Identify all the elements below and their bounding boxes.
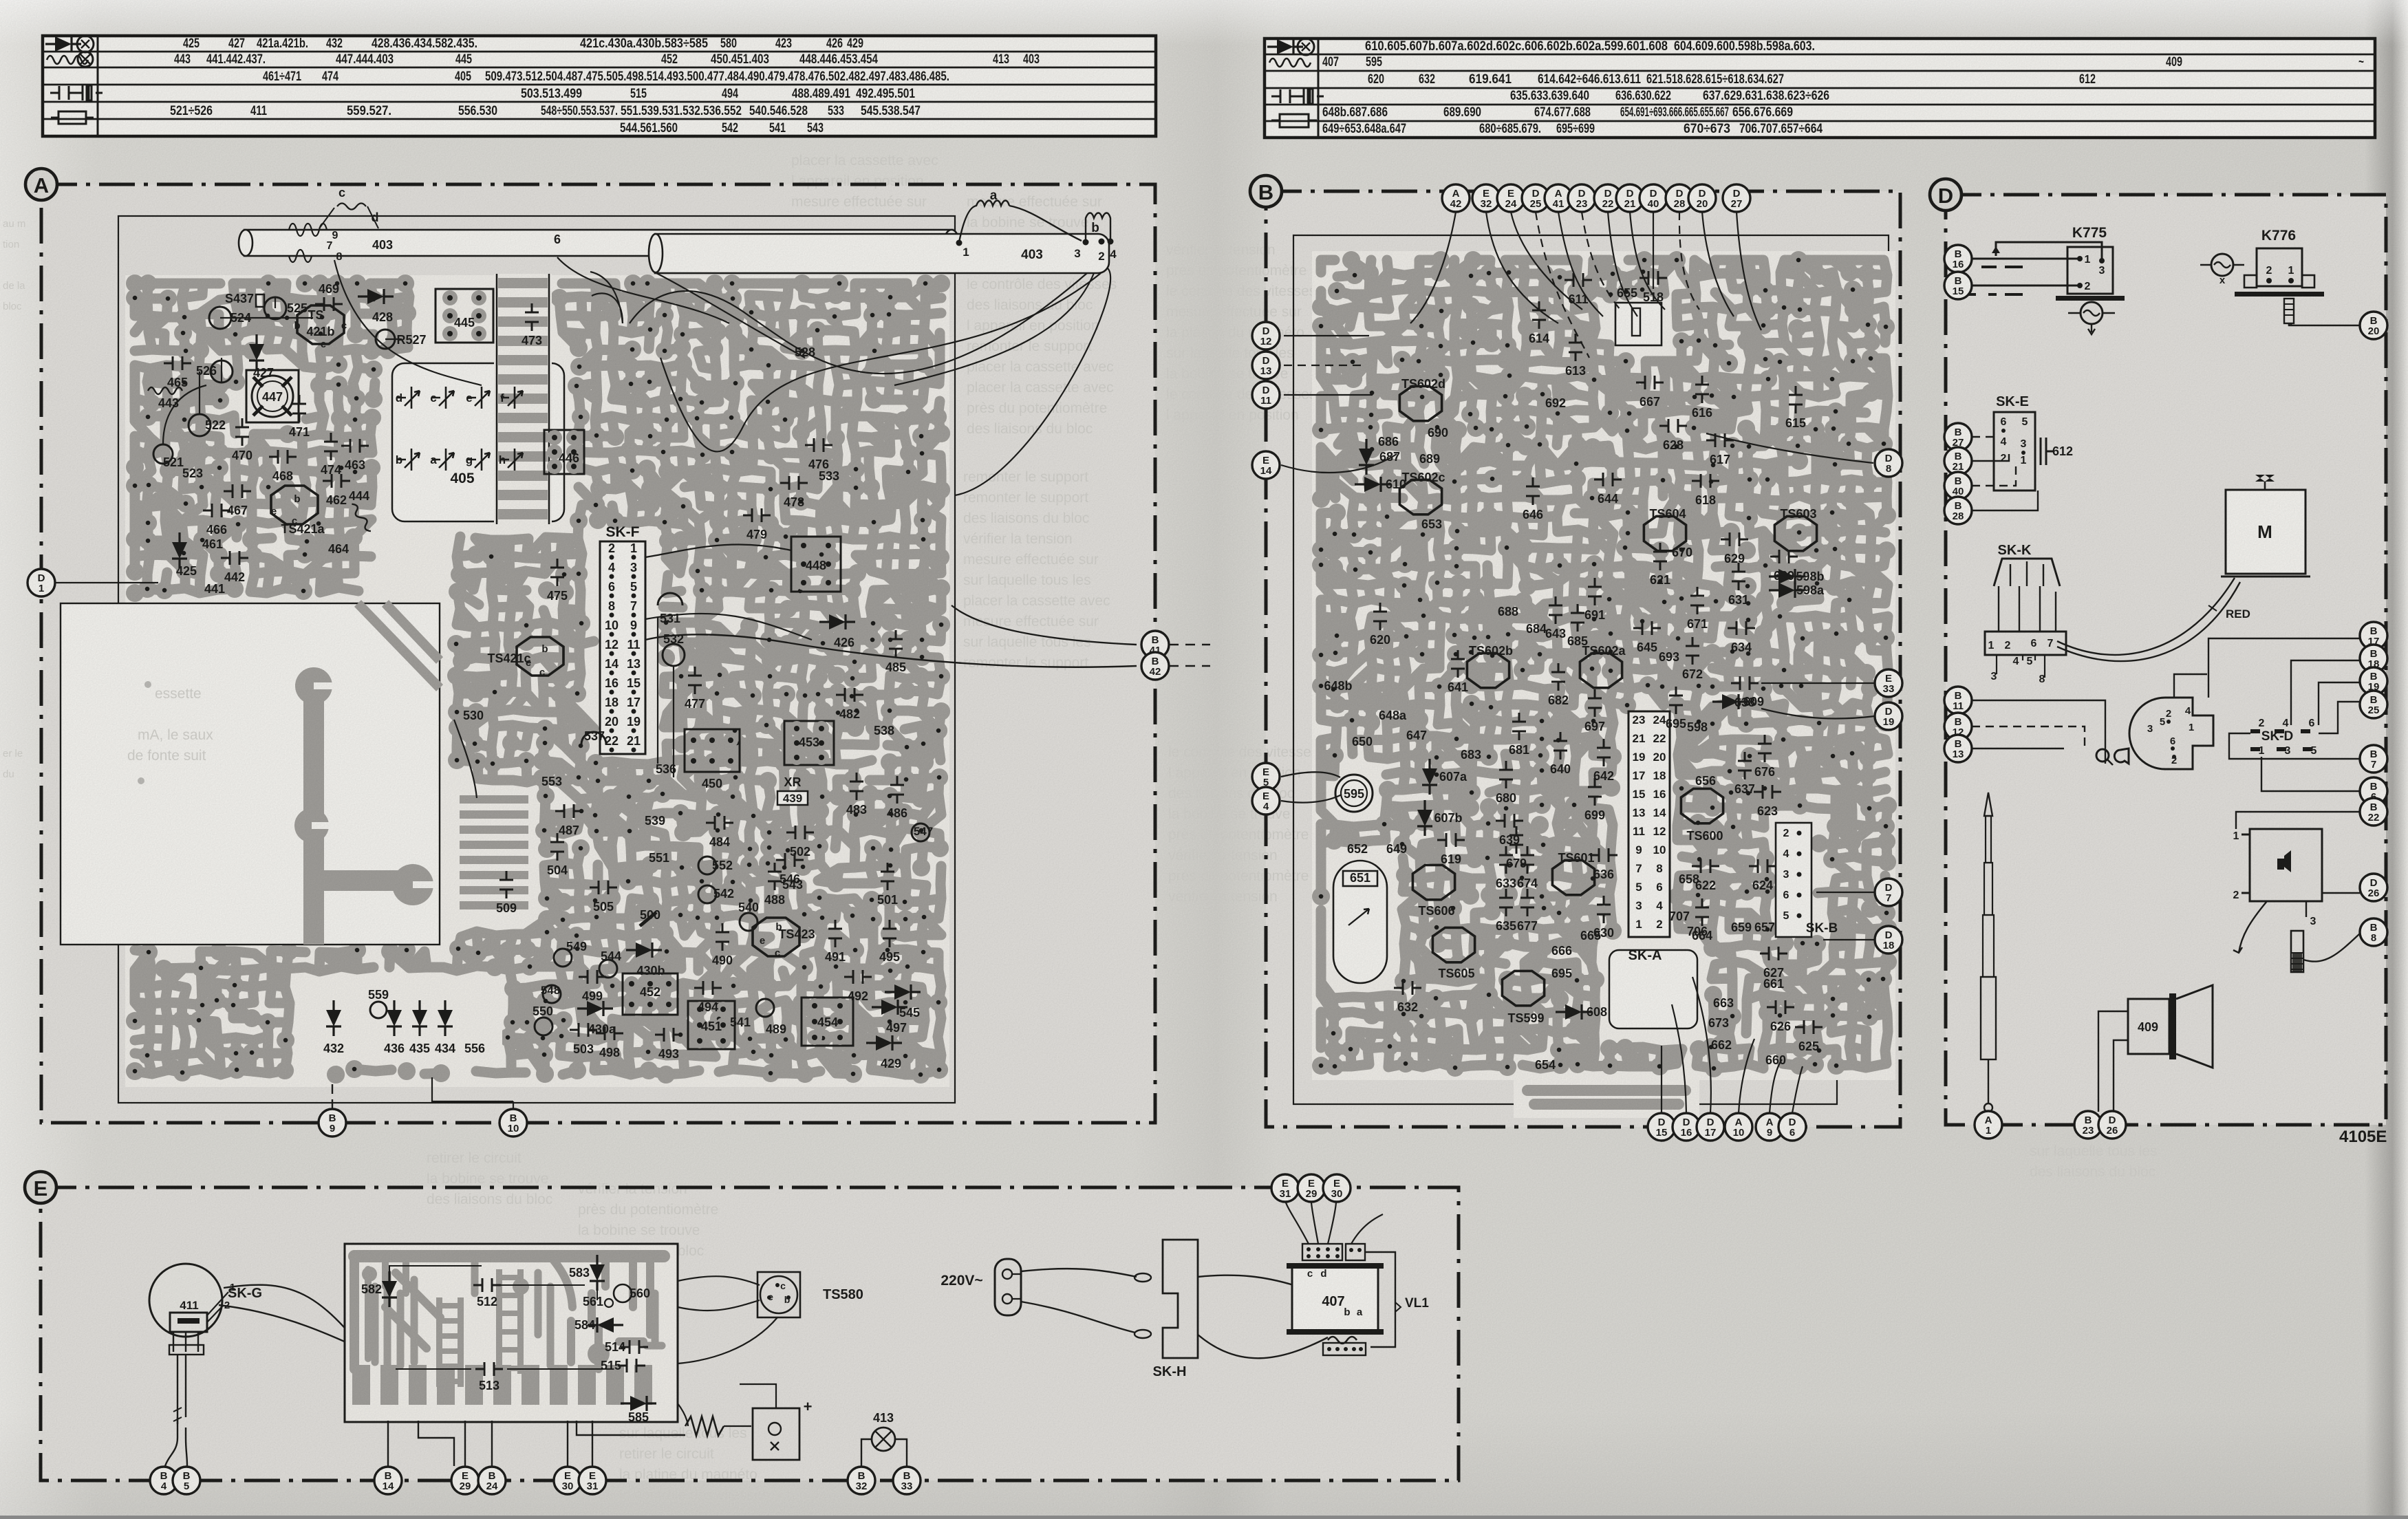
capacitor 671 bbox=[1690, 587, 1704, 614]
module 450 bbox=[685, 729, 740, 772]
connector D8 bbox=[1875, 449, 1902, 477]
capacitor 645 bbox=[1633, 621, 1661, 635]
connector B10 bbox=[432, 1077, 513, 1109]
part 469 bbox=[315, 297, 343, 311]
module 451 bbox=[688, 1001, 735, 1049]
component index table (right page) bbox=[1265, 39, 2375, 138]
part 544 bbox=[599, 960, 617, 978]
connector D17 bbox=[1697, 1113, 1724, 1141]
jumper wires top of board B bbox=[1281, 212, 1875, 1113]
lamp housing 651 bbox=[1333, 861, 1387, 983]
pilot lamp under K775 bbox=[2081, 302, 2103, 324]
wires to TS580 bbox=[678, 1276, 777, 1364]
board E to bottom connectors bbox=[388, 1421, 685, 1466]
capacitor 473 bbox=[525, 303, 539, 331]
right index numbers row 4 bbox=[1510, 89, 1829, 103]
connector A10 bbox=[1725, 1113, 1752, 1141]
capacitor 697 bbox=[1588, 689, 1602, 717]
right index numbers row 3 bbox=[1368, 72, 2096, 87]
panel D border bbox=[1946, 195, 2386, 1125]
tuner 447 bbox=[246, 370, 299, 422]
part 549 bbox=[554, 949, 572, 967]
capacitor 618 bbox=[1692, 474, 1719, 488]
transistor TS600 bbox=[1681, 788, 1723, 823]
connector D22 bbox=[1594, 184, 1622, 212]
module 448 bbox=[791, 537, 841, 592]
capacitor 483 bbox=[850, 773, 863, 800]
diode 426 bbox=[819, 614, 855, 629]
diode 425 bbox=[172, 532, 187, 568]
capacitor 614 bbox=[1532, 301, 1546, 329]
capacitor 621 bbox=[1653, 543, 1667, 570]
link wires board E bbox=[389, 1266, 612, 1369]
capacitor 691 bbox=[1588, 578, 1602, 605]
capacitor 488 bbox=[768, 863, 782, 890]
transistor TS606 bbox=[1412, 865, 1454, 899]
diode 545 bbox=[885, 984, 921, 1000]
part 550 bbox=[535, 1017, 552, 1035]
capacitor 642 bbox=[1597, 739, 1611, 766]
capacitor icons bbox=[50, 86, 78, 100]
resistor icon bbox=[1280, 114, 1309, 127]
capacitor 632 bbox=[1394, 981, 1421, 995]
capacitor 677 bbox=[1520, 889, 1534, 916]
transistor TS599 bbox=[1502, 971, 1544, 1005]
ferrite rod aerial 403 (left rod) bbox=[244, 230, 953, 256]
clear zone SK-A bbox=[1609, 950, 1697, 1028]
capacitor 466 bbox=[203, 504, 230, 517]
capacitor 471 bbox=[292, 395, 306, 422]
aerial lead wires bbox=[334, 257, 1110, 495]
capacitor 625 bbox=[1795, 1020, 1823, 1034]
capacitor 644 bbox=[1594, 473, 1622, 486]
capacitor 624 bbox=[1749, 859, 1776, 873]
module 452 bbox=[623, 973, 678, 1015]
capacitor 613 bbox=[1569, 334, 1582, 361]
capacitor 512 bbox=[473, 1278, 501, 1292]
ladder structures bbox=[436, 1297, 442, 1387]
capacitor 474 bbox=[324, 433, 338, 460]
transistor TS421c bbox=[517, 637, 563, 676]
capacitor 639 bbox=[1496, 814, 1523, 828]
trimmer set 405 bbox=[398, 387, 411, 409]
winding on left rod bbox=[289, 224, 327, 262]
transistor TS601 bbox=[1552, 860, 1594, 894]
coil icon bbox=[1269, 58, 1311, 67]
part 537 bbox=[581, 732, 606, 744]
connector E4 bbox=[1252, 787, 1280, 815]
diode 436 bbox=[387, 1000, 402, 1036]
capacitor 505 bbox=[590, 881, 617, 894]
capacitor 502 bbox=[786, 826, 814, 839]
capacitor 617 bbox=[1706, 433, 1734, 447]
capacitor 492 bbox=[844, 970, 872, 984]
connector E33 bbox=[1875, 669, 1902, 697]
index numbers row 5 bbox=[170, 104, 921, 118]
part 526 bbox=[211, 360, 233, 383]
capacitor 465 bbox=[164, 356, 191, 370]
PCB copper traces board E bbox=[354, 1256, 664, 1369]
capacitor 513 bbox=[475, 1362, 503, 1376]
connector E5 bbox=[1252, 763, 1280, 790]
part 525 bbox=[264, 297, 286, 319]
capacitor 482 bbox=[836, 688, 863, 702]
capacitor 634 bbox=[1728, 621, 1755, 635]
capacitor 487 bbox=[555, 804, 583, 818]
part 524 bbox=[209, 307, 231, 329]
connector strip (central) bbox=[1628, 711, 1670, 937]
part 548 bbox=[543, 985, 561, 1003]
capacitor 494 bbox=[694, 981, 722, 995]
diode 497 bbox=[872, 1000, 907, 1015]
diode 583 bbox=[590, 1255, 605, 1291]
capacitor 630 bbox=[1597, 896, 1611, 923]
connectors B11 B12 B13 bbox=[1972, 700, 2105, 764]
capacitor 682 bbox=[1551, 663, 1565, 691]
transistor TS423 bbox=[753, 918, 799, 956]
index numbers row 6 bbox=[620, 121, 824, 136]
panel B border bbox=[1266, 191, 1900, 1127]
connector D12 bbox=[1252, 322, 1280, 349]
part R527 bbox=[376, 330, 395, 349]
board B substrate bbox=[1312, 251, 1895, 1118]
capacitor 477 bbox=[688, 667, 702, 694]
capacitor 681 bbox=[1512, 713, 1526, 740]
connector D19 bbox=[1875, 702, 1902, 730]
connector B16/B15/B20 bbox=[1944, 245, 1972, 272]
diode 610 bbox=[1355, 477, 1390, 492]
part 542 bbox=[698, 885, 716, 903]
part 547 bbox=[912, 823, 929, 841]
phone jack socket bbox=[2250, 829, 2322, 901]
connector E32 bbox=[1472, 184, 1500, 212]
wide supply trace through note area bbox=[314, 670, 402, 945]
diode 609 bbox=[1712, 694, 1748, 709]
diode 429 bbox=[866, 1035, 902, 1051]
capacitor 674 bbox=[1520, 846, 1534, 874]
capacitor 667 bbox=[1636, 376, 1664, 389]
right index numbers row 2 bbox=[1322, 55, 2364, 69]
pickup coil c/d above rod bbox=[337, 204, 366, 210]
edge connector comb bbox=[494, 274, 552, 524]
diode row clear zone bbox=[303, 984, 502, 1059]
module 445 bbox=[436, 289, 493, 343]
capacitor 509 bbox=[499, 871, 513, 898]
capacitor 636 bbox=[1590, 848, 1617, 862]
connector D27 bbox=[1723, 184, 1750, 212]
connector D1 bbox=[28, 569, 55, 596]
capacitor 499 bbox=[579, 970, 606, 984]
resistor icon bbox=[58, 111, 86, 124]
capacitor 622 bbox=[1692, 859, 1719, 873]
index numbers row 1 bbox=[183, 36, 863, 51]
capacitor 629 bbox=[1721, 532, 1748, 546]
pilot lamp K776 bbox=[2211, 254, 2233, 276]
connector B42 bbox=[1141, 652, 1169, 680]
SK-G leads bbox=[165, 1355, 187, 1466]
capacitor 616 bbox=[1695, 376, 1709, 403]
connector B9 bbox=[332, 1079, 333, 1109]
capacitor 680 bbox=[1499, 761, 1513, 788]
transistor TS580 bbox=[757, 1272, 800, 1317]
connector D6 bbox=[1778, 1113, 1806, 1141]
SK-D wiring bbox=[2174, 638, 2360, 791]
capacitor 467 bbox=[224, 484, 251, 498]
pot 560 bbox=[614, 1284, 632, 1302]
capacitor 515 bbox=[618, 1359, 645, 1372]
faint show-through text from reverse page bbox=[120, 53, 268, 131]
connector D23 bbox=[1568, 184, 1595, 212]
part 522 bbox=[189, 414, 211, 436]
capacitor 468 bbox=[269, 450, 297, 464]
diode 434 bbox=[438, 1000, 453, 1036]
part 541 bbox=[756, 999, 774, 1017]
blank note area bbox=[61, 603, 440, 945]
transistor TS602a bbox=[1580, 653, 1622, 687]
diode 435 bbox=[412, 1000, 427, 1036]
copper on bottom tab of board B bbox=[1527, 1090, 1686, 1104]
capacitor 493 bbox=[655, 1028, 682, 1042]
capacitor 463 bbox=[341, 439, 369, 453]
index numbers row 4 bbox=[521, 87, 915, 101]
transistor TS602c bbox=[1399, 480, 1441, 514]
diode 427 bbox=[249, 334, 264, 370]
capacitor 635 bbox=[1499, 889, 1513, 916]
connector D18 bbox=[1875, 926, 1902, 954]
SK-G to board wires bbox=[224, 1285, 385, 1379]
connector A41 bbox=[1545, 184, 1572, 212]
capacitor 470 bbox=[235, 418, 249, 446]
chassis bar K775 bbox=[2056, 296, 2125, 301]
capacitor 518 bbox=[1640, 271, 1667, 285]
capacitor 514 bbox=[621, 1340, 648, 1354]
coil 444 bbox=[350, 502, 374, 532]
part 531 bbox=[658, 593, 682, 605]
switch SK-D bbox=[2129, 698, 2213, 769]
pad 559 bbox=[370, 1002, 387, 1018]
capacitor 669 bbox=[1770, 550, 1798, 563]
telescopic aerial bbox=[1984, 793, 1992, 816]
battery box bbox=[753, 1408, 799, 1460]
panel E border bbox=[41, 1187, 1459, 1480]
magnifier icons bbox=[2096, 749, 2109, 762]
connector D15 bbox=[1648, 1113, 1675, 1141]
capacitor 479 bbox=[743, 508, 771, 522]
module 446 bbox=[544, 430, 584, 474]
capacitor 685 bbox=[1571, 604, 1584, 632]
motor leads (RED) bbox=[2057, 578, 2235, 655]
right index numbers row 1 bbox=[1365, 39, 1815, 54]
transistor TS421a bbox=[271, 486, 318, 524]
right index numbers row 5 bbox=[1322, 105, 1793, 120]
capacitor 546 bbox=[776, 853, 804, 867]
capacitor 641 bbox=[1451, 650, 1465, 678]
diode 598a bbox=[1769, 583, 1805, 598]
board B outline bbox=[1293, 235, 1889, 1104]
board A outline bbox=[118, 216, 955, 1103]
diode + meter icons bbox=[1267, 39, 1303, 54]
capacitor 484 bbox=[706, 816, 733, 830]
capacitor 664 bbox=[1695, 898, 1709, 926]
connector D7 bbox=[1875, 879, 1902, 906]
mains transformer 407 bbox=[1292, 1267, 1378, 1331]
component index table (left page) bbox=[43, 36, 1156, 136]
capacitor 501 bbox=[881, 863, 894, 890]
coil + lamp icons bbox=[47, 56, 88, 64]
panel A border bbox=[41, 184, 1155, 1123]
trimmer box 405 bbox=[392, 363, 564, 521]
diode 432 bbox=[326, 1000, 341, 1036]
mains leads bbox=[1021, 1269, 1137, 1277]
capacitor 627 bbox=[1760, 947, 1787, 960]
capacitor 611 bbox=[1565, 273, 1592, 287]
motor M bbox=[2226, 490, 2305, 574]
part 540 bbox=[740, 913, 757, 931]
capacitor 672 bbox=[1686, 637, 1699, 665]
diode 687 bbox=[1359, 439, 1374, 475]
board E substrate bbox=[345, 1244, 678, 1422]
loudspeaker 409 bbox=[2128, 999, 2169, 1054]
connector D21 bbox=[1616, 184, 1644, 212]
connector D13 bbox=[1252, 352, 1280, 379]
connector SK-B bbox=[1776, 823, 1812, 937]
connector D16 bbox=[1673, 1113, 1700, 1141]
connector D40 bbox=[1640, 184, 1667, 212]
connector A9 bbox=[1756, 1113, 1783, 1141]
capacitor 475 bbox=[550, 559, 564, 586]
capacitor 485 bbox=[889, 630, 903, 658]
transistor TS602b bbox=[1467, 653, 1509, 687]
capacitor 619 bbox=[1437, 833, 1465, 847]
board A substrate bbox=[125, 275, 949, 1087]
panel interiors bbox=[41, 184, 1155, 1123]
capacitor 462 bbox=[323, 474, 350, 488]
faint show-through inside note area bbox=[127, 686, 213, 764]
capacitor 676 bbox=[1758, 735, 1772, 762]
aerial coil b bbox=[1086, 213, 1110, 241]
VL1 lead bbox=[1365, 1252, 1395, 1347]
capacitor icons bbox=[1271, 89, 1299, 103]
PCB copper traces board A bbox=[135, 283, 941, 1075]
capacitor 623 bbox=[1754, 785, 1781, 799]
connector A42 bbox=[1442, 184, 1470, 212]
aerial coil a bbox=[959, 201, 1082, 243]
connector D25 bbox=[1522, 184, 1549, 212]
capacitor 491 bbox=[828, 920, 842, 947]
diode + meter icons bbox=[45, 36, 81, 52]
jack plug bbox=[2291, 931, 2303, 972]
connector B41 bbox=[1141, 631, 1169, 658]
capacitor 679 bbox=[1509, 826, 1523, 854]
index numbers row 2 bbox=[174, 52, 1040, 67]
diode 608 bbox=[1556, 1004, 1591, 1020]
module 454 bbox=[802, 998, 853, 1046]
pot 595 bbox=[1335, 775, 1373, 812]
hatched grill bbox=[455, 791, 532, 915]
board E edge pads bbox=[352, 1365, 370, 1405]
capacitor 633 bbox=[1499, 846, 1513, 874]
capacitor 504 bbox=[550, 833, 564, 861]
diode 598b bbox=[1769, 569, 1805, 584]
transformer to E31/E29/E30 bbox=[1286, 1203, 1383, 1244]
capacitor 631 bbox=[1732, 563, 1745, 590]
right index numbers row 6 bbox=[1322, 122, 1823, 136]
capacitor 699 bbox=[1588, 778, 1602, 806]
chassis bar K776 bbox=[2235, 292, 2324, 297]
ferrite rod aerial 403 (right rod) bbox=[655, 234, 1109, 273]
diode 585 bbox=[621, 1396, 656, 1411]
diode 430b bbox=[626, 942, 662, 958]
transistor TS421b bbox=[297, 305, 344, 344]
PCB copper traces board B bbox=[1321, 260, 1888, 1068]
SK-H to transformer leads bbox=[1198, 1275, 1293, 1285]
capacitor 646 bbox=[1526, 477, 1540, 505]
diode 582 bbox=[382, 1271, 397, 1307]
diode 607a bbox=[1422, 759, 1437, 795]
wires inside board A bbox=[41, 272, 812, 798]
transistor TS603 bbox=[1774, 516, 1816, 550]
part 552 bbox=[698, 857, 716, 874]
capacitor 638 bbox=[1731, 676, 1759, 690]
connector D11 bbox=[1252, 381, 1280, 409]
part 532 bbox=[663, 644, 685, 666]
capacitor 442 bbox=[221, 551, 248, 565]
capacitor 495 bbox=[883, 920, 896, 947]
connector SK-F bbox=[600, 541, 645, 754]
capacitor 486 bbox=[890, 776, 904, 804]
capacitor 626 bbox=[1767, 1000, 1794, 1014]
capacitor 620 bbox=[1373, 603, 1387, 630]
diode 607b bbox=[1417, 800, 1432, 836]
capacitor 615 bbox=[1789, 386, 1803, 413]
capacitor 503 bbox=[570, 1023, 597, 1037]
index numbers row 3 bbox=[263, 69, 949, 84]
transistor TS605 bbox=[1432, 927, 1474, 962]
capacitor 695 bbox=[1669, 687, 1683, 714]
connector E14 bbox=[1252, 451, 1280, 479]
part 655 bbox=[1615, 303, 1662, 345]
secondary coil bbox=[1328, 1337, 1357, 1344]
part 521 bbox=[153, 444, 173, 464]
connector D20 bbox=[1688, 184, 1716, 212]
capacitor 643 bbox=[1549, 596, 1562, 624]
transistor TS602d bbox=[1399, 386, 1441, 420]
primary pad blocks bbox=[1302, 1244, 1342, 1260]
resistor 443 bbox=[148, 387, 182, 394]
connector D28 bbox=[1666, 184, 1693, 212]
diode 430a bbox=[577, 1001, 613, 1016]
slotted pads bbox=[295, 667, 332, 704]
part 500 bbox=[640, 912, 656, 926]
microphone SK-G with element 411 bbox=[149, 1264, 222, 1337]
capacitor 476 bbox=[805, 438, 832, 452]
module 453 bbox=[784, 721, 834, 765]
capacitor 612 bbox=[2041, 438, 2054, 465]
diode 584 bbox=[588, 1317, 623, 1333]
transistor TS604 bbox=[1644, 516, 1686, 550]
wire to B41/B42 bbox=[645, 605, 1210, 667]
capacitor 637 bbox=[1738, 752, 1752, 779]
capacitor 478 bbox=[780, 476, 808, 490]
capacitor 640 bbox=[1554, 732, 1567, 759]
capacitor 490 bbox=[716, 923, 729, 951]
connector E24 bbox=[1497, 184, 1525, 212]
resistor (series) bbox=[678, 1403, 688, 1426]
connector SK-H bbox=[1163, 1240, 1198, 1358]
diode 428 bbox=[358, 289, 394, 304]
capacitor 628 bbox=[1659, 419, 1687, 433]
capacitor 498 bbox=[596, 1026, 623, 1040]
